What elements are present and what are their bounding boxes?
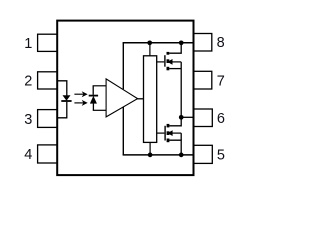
pin 1 lead xyxy=(38,34,58,51)
wire Q1 source xyxy=(169,68,181,70)
MOSFET Q2 xyxy=(164,124,181,142)
package outline xyxy=(57,21,193,176)
wire Q2 drain to pin6 node xyxy=(169,117,181,126)
light arrow upper xyxy=(74,91,87,97)
amplifier A1 xyxy=(106,79,138,117)
wire amplifier output to control box xyxy=(137,98,144,100)
light arrow lower xyxy=(74,100,87,106)
MOSFET Q1 xyxy=(164,52,181,70)
wire LED cathode to pin3 xyxy=(58,102,67,118)
LED D1 xyxy=(61,96,71,102)
photodiode PD1 xyxy=(89,86,98,111)
wire Q2 gate xyxy=(157,132,165,134)
pin 4 label xyxy=(24,147,32,163)
pin 6 label xyxy=(217,111,225,127)
pin 7 lead xyxy=(194,71,212,89)
pin 1 label xyxy=(24,36,32,52)
svg-text:1: 1 xyxy=(24,36,32,52)
wire Q2 body to source line xyxy=(180,133,182,140)
wire top rail to pin 8 xyxy=(123,42,194,44)
svg-text:5: 5 xyxy=(217,148,225,164)
wire photodiode cathode to amplifier input top xyxy=(93,85,107,87)
junction pin6 node xyxy=(179,115,184,120)
svg-text:7: 7 xyxy=(217,73,225,89)
pin 5 lead xyxy=(194,145,213,163)
wire photodiode anode to amplifier input bottom xyxy=(93,109,107,111)
junction top rail / control box xyxy=(147,40,152,45)
pin 4 lead xyxy=(38,145,58,163)
pin 7 label xyxy=(217,73,225,89)
wire Q1 source/body down to pin6 node xyxy=(180,62,182,117)
wire Q1 drain to top rail xyxy=(169,43,181,53)
pin 3 lead xyxy=(38,110,58,128)
svg-text:3: 3 xyxy=(24,112,32,128)
pin 2 lead xyxy=(38,72,58,89)
wire pin6 node to pin 6 xyxy=(181,116,193,118)
control box U1 xyxy=(144,56,157,143)
junction bottom rail / Q2 source xyxy=(179,153,184,158)
wire left rail lower segment xyxy=(122,107,124,155)
svg-text:8: 8 xyxy=(217,35,225,51)
wire control box bottom to bottom rail xyxy=(149,142,151,154)
pin 2 label xyxy=(24,74,32,90)
svg-text:6: 6 xyxy=(217,111,225,127)
pin 8 lead xyxy=(194,34,212,52)
wire top rail to control box top xyxy=(149,43,151,56)
pin 3 label xyxy=(24,112,32,128)
svg-text:4: 4 xyxy=(24,147,32,163)
junction bottom rail / control box xyxy=(148,153,153,158)
pin 6 lead xyxy=(194,109,213,127)
wire left rail upper segment xyxy=(122,43,124,90)
wire bottom rail to pin 5 xyxy=(123,154,194,156)
svg-text:2: 2 xyxy=(24,74,32,90)
wire Q1 gate xyxy=(157,61,165,63)
junction top rail / Q1 drain xyxy=(179,40,184,45)
wire Q2 source to bottom rail xyxy=(169,140,181,155)
pin 8 label xyxy=(217,35,225,51)
pin 5 label xyxy=(217,148,225,164)
wire pin2 to LED anode xyxy=(58,81,67,96)
